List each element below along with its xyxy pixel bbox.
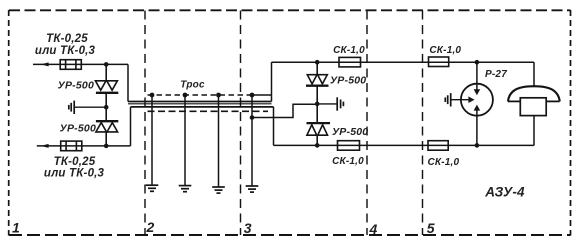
node dot bottom line (section 3): [315, 143, 320, 148]
wire: pole 2 down lead: [184, 95, 186, 186]
svg-text:УР-500: УР-500: [60, 123, 96, 135]
ground (left-facing) at section 1 midpoint: [69, 101, 106, 114]
node dot bottom line P-27: [475, 143, 480, 148]
ground (right-facing) at section 3 midpoint: [317, 97, 343, 110]
ground pole 2: [179, 186, 192, 192]
ground pole 3: [212, 187, 225, 193]
fuse SK-1,0 station bottom left: [338, 141, 360, 151]
node dot top line / arrester (section 3): [315, 60, 320, 65]
border frame left: [8, 10, 10, 236]
svg-text:5: 5: [427, 220, 435, 236]
arrowhead subscriber top: [41, 62, 49, 66]
border frame bottom: [9, 234, 571, 236]
wire: subscriber top lead with arrow: [33, 63, 128, 65]
wire: riser from bottom line to arrester P-27: [476, 110, 478, 145]
section divider 1|2: [144, 11, 146, 236]
svg-text:УР-500: УР-500: [330, 75, 366, 87]
arrester UR-500 bottom (section 1): [96, 107, 118, 146]
svg-text:Трос: Трос: [180, 80, 205, 91]
telephone receiver dome: [508, 86, 560, 101]
wire: vertical from top lead down to pair wire a: [127, 64, 129, 101]
svg-text:4: 4: [369, 221, 378, 237]
fuse TK-0,25 bottom: [61, 141, 82, 151]
border frame top: [9, 9, 571, 11]
telephone capsule body: [520, 98, 546, 116]
wire: drop from top line to arrester P-27: [476, 62, 478, 89]
wire: pole 1 down lead: [151, 95, 153, 185]
node dot pole 4 jog: [250, 115, 255, 120]
electrode arrow bottom: [474, 105, 481, 111]
ground (left-facing) of P-27 third electrode: [445, 93, 470, 106]
wire: pole 3 down lead: [218, 95, 220, 187]
ground pole 1: [146, 185, 159, 191]
ground pole 4: [246, 186, 259, 192]
wire: pair line a2: [128, 103, 272, 105]
wire: riser pair a to station top line: [271, 62, 273, 101]
svg-text:ТК-0,25: ТК-0,25: [54, 156, 96, 168]
wire: vertical from bottom lead up to pair wire b: [130, 107, 132, 146]
border frame right: [570, 10, 572, 236]
svg-text:СК-1,0: СК-1,0: [427, 157, 459, 168]
section divider 4|5: [422, 11, 424, 236]
wire: tros solid tail to riser: [252, 94, 272, 96]
wire: pole 4 down lead: [251, 95, 253, 186]
svg-text:2: 2: [146, 219, 155, 235]
svg-text:3: 3: [244, 220, 252, 236]
wire: subscriber bottom lead with arrow: [37, 145, 131, 147]
section divider 3|4: [366, 11, 368, 236]
svg-text:СК-1,0: СК-1,0: [332, 156, 364, 167]
node dot midpoint (section 1): [104, 105, 109, 110]
node dot tros pole 4: [250, 93, 255, 98]
fuse TK-0,25 top: [60, 60, 81, 70]
wire: pair line b: [131, 106, 274, 108]
fuse SK-1,0 station top left: [339, 57, 361, 67]
node dot tros pole 3: [216, 93, 221, 98]
node dot tros pole 2: [183, 93, 188, 98]
wire: telephone to bottom line: [533, 116, 535, 146]
svg-text:АЗУ-4: АЗУ-4: [484, 185, 525, 200]
node dot top line P-27: [475, 60, 480, 65]
electrode arrow left: [468, 96, 474, 103]
arrester UR-500 bottom (section 3): [307, 104, 331, 145]
arrester P-27 circle: [461, 84, 493, 116]
svg-text:Р-27: Р-27: [485, 69, 507, 80]
arrowhead subscriber bottom: [41, 144, 49, 148]
wire: riser pair b to station bottom line: [273, 107, 275, 145]
svg-text:СК-1,0: СК-1,0: [333, 45, 365, 56]
wire: pair line a: [128, 101, 272, 103]
svg-text:ТК-0,25: ТК-0,25: [46, 33, 88, 45]
wire: top line drop to telephone: [533, 62, 535, 87]
svg-text:УР-500: УР-500: [58, 80, 94, 92]
svg-text:1: 1: [12, 219, 20, 235]
wire: station bottom line: [274, 144, 535, 146]
wire: station top line: [272, 61, 535, 63]
svg-text:или ТК-0,3: или ТК-0,3: [35, 45, 96, 57]
fuse SK-1,0 station bottom right: [428, 141, 448, 151]
node dot midpoint (section 3): [315, 102, 320, 107]
wire: overhead ground cable (dashed) Tros: [148, 94, 253, 96]
node dot tros pole 1: [150, 93, 155, 98]
wire: lower ground cable (dashed): [148, 110, 269, 112]
wire: jog from pole 4 to arrester midpoint: [252, 104, 317, 117]
arrester UR-500 top (section 1): [95, 64, 118, 107]
node dot bottom lead (section 1): [104, 144, 109, 149]
electrode arrow top: [474, 89, 481, 95]
svg-text:УР-500: УР-500: [332, 126, 368, 138]
section divider 2|3: [240, 11, 242, 236]
arrester UR-500 top (section 3): [306, 62, 329, 104]
svg-text:СК-1,0: СК-1,0: [429, 45, 461, 56]
node dot top lead / arrester (section 1): [104, 62, 109, 67]
fuse SK-1,0 station top right: [429, 57, 449, 67]
svg-text:или ТК-0,3: или ТК-0,3: [44, 167, 105, 179]
